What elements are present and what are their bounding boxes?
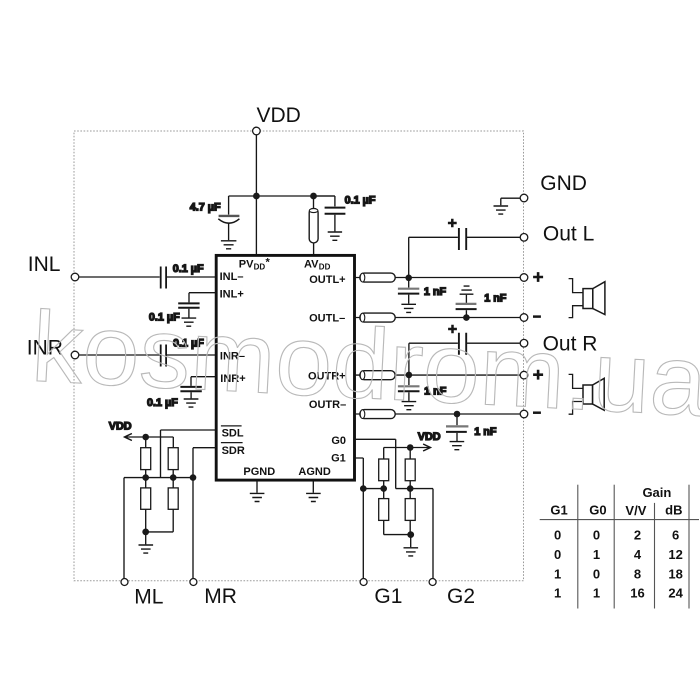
svg-text:12: 12: [668, 547, 682, 562]
svg-text:1: 1: [554, 566, 561, 581]
svg-text:Out L: Out L: [543, 223, 594, 246]
wire supply rail: [229, 195, 335, 197]
arrowhead VDD right: [423, 444, 430, 451]
capacitor C9 1nF on OUTL- with ground above: [465, 310, 467, 317]
svg-text:0: 0: [554, 547, 561, 562]
plus mark C10: [448, 325, 457, 334]
node ML: [121, 579, 128, 586]
node G1: [360, 579, 367, 586]
inverted ground above C9: [460, 286, 474, 294]
svg-text:0.1 µF: 0.1 µF: [345, 195, 376, 207]
ground at GND node: [494, 206, 509, 214]
svg-text:18: 18: [668, 566, 682, 581]
node INR: [71, 351, 79, 359]
wire Out R coupling branch: [409, 343, 520, 375]
terminal plus mark Out L line: [533, 272, 543, 282]
arrowhead VDD left: [125, 434, 132, 441]
capacitor C4 0.1uF plates: [178, 303, 199, 307]
ground under C4: [182, 318, 197, 326]
node MR: [190, 579, 197, 586]
capacitor C8 1nF on OUTL+: [408, 278, 410, 288]
ferrite bead L3 on OUTR+: [360, 371, 395, 380]
ferrite bead L2 on OUTL-: [360, 313, 395, 322]
svg-text:8: 8: [634, 566, 641, 581]
terminal plus mark Out R line: [533, 370, 543, 380]
wire G1: [355, 458, 364, 579]
svg-text:V/V: V/V: [625, 503, 646, 518]
svg-text:AGND: AGND: [298, 466, 330, 478]
svg-text:INL+: INL+: [220, 289, 244, 301]
junction dots output lines: [253, 193, 470, 418]
svg-text:4: 4: [634, 547, 642, 562]
capacitor C2 plates: [325, 208, 346, 214]
node Out R: [520, 339, 528, 347]
resistor R2b: [168, 488, 178, 509]
wire ML drop: [123, 478, 125, 579]
wire INR+ to bypass cap: [191, 377, 216, 386]
node speaker R minus: [520, 410, 528, 418]
ground PGND: [256, 481, 258, 493]
gain table rules: [540, 485, 699, 609]
wire INL+ to bypass cap: [189, 293, 216, 303]
ferrite bead L4 on OUTR-: [360, 410, 395, 419]
wire resistor leads right network: [384, 481, 411, 535]
node speaker R plus: [520, 371, 528, 379]
node speaker L minus: [520, 314, 528, 322]
junction dots left network: [142, 434, 196, 536]
svg-text:0: 0: [593, 566, 600, 581]
wire mid rail right network: [363, 488, 383, 490]
svg-text:4.7 µF: 4.7 µF: [190, 201, 221, 213]
node speaker L plus: [520, 274, 528, 282]
svg-text:*: *: [266, 257, 271, 269]
svg-text:DD: DD: [319, 263, 331, 272]
IC U1 body: [216, 255, 354, 480]
svg-text:1: 1: [554, 586, 561, 601]
capacitor C1 ground stem: [228, 223, 230, 240]
svg-text:Gain: Gain: [642, 485, 671, 500]
svg-text:G1: G1: [550, 502, 567, 517]
svg-text:INL: INL: [28, 253, 61, 276]
wire R3b top lead: [409, 448, 411, 460]
speaker SP2 right channel: [569, 374, 605, 414]
wire VDD arrow line left: [126, 437, 174, 448]
wire SDR: [193, 448, 216, 579]
resistor R1b: [168, 448, 178, 470]
svg-text:0: 0: [593, 527, 600, 542]
svg-text:1 nF: 1 nF: [484, 293, 507, 305]
wire R1a top lead: [145, 437, 147, 448]
ground under C12: [450, 442, 465, 450]
capacitor C4 ground stem: [188, 309, 190, 318]
ferrite bead on AVDD lead wire: [313, 196, 315, 255]
capacitor C3 0.1uF series plates: [161, 267, 166, 289]
node GND: [520, 194, 528, 202]
ground under C2: [328, 232, 342, 240]
resistor R4a: [379, 499, 389, 521]
capacitor C1 top plate: [219, 215, 240, 217]
svg-text:6: 6: [672, 527, 679, 542]
ferrite bead L1 on OUTL+: [360, 273, 395, 282]
ground under C8: [401, 304, 416, 312]
resistor R3b: [405, 459, 415, 481]
svg-text:2: 2: [634, 527, 641, 542]
ground stem left network: [145, 532, 147, 545]
svg-text:OUTL+: OUTL+: [309, 274, 345, 286]
ground AGND: [312, 481, 314, 493]
svg-text:G0: G0: [331, 435, 346, 447]
resistor R4b: [405, 499, 415, 521]
svg-text:SDR: SDR: [222, 445, 245, 457]
wire GND stub: [501, 198, 520, 205]
ground under left network: [139, 545, 154, 553]
resistor R3a: [379, 459, 389, 481]
wire OUTR+ line: [355, 374, 521, 376]
wire mid rail left network: [124, 477, 193, 479]
ground stem right network: [410, 535, 412, 548]
svg-text:1: 1: [593, 547, 600, 562]
svg-text:G0: G0: [589, 502, 606, 517]
svg-text:GND: GND: [540, 172, 587, 195]
wire OUTR- line: [355, 413, 521, 415]
junction dots right network: [360, 444, 414, 538]
capacitor C6 ground stem: [190, 392, 192, 398]
svg-text:ML: ML: [134, 585, 163, 608]
capacitor C12 1nF on OUTR-: [456, 414, 458, 425]
speaker SP1 left channel: [569, 279, 605, 318]
wire VDD arrow line right: [384, 448, 429, 460]
dashed application border box: [74, 131, 524, 581]
svg-text:1: 1: [593, 586, 600, 601]
svg-text:G2: G2: [447, 585, 475, 608]
svg-text:AV: AV: [304, 258, 319, 270]
capacitor C2 ground stem: [334, 215, 336, 232]
wire G0: [355, 439, 434, 578]
svg-text:VDD: VDD: [418, 431, 441, 443]
capacitor C7 electrolytic plates Out L: [459, 228, 466, 250]
wire VDD drop to supply rail: [255, 131, 257, 196]
node VDD: [253, 127, 261, 135]
svg-text:24: 24: [668, 586, 683, 601]
terminal minus mark Out R line: [533, 411, 541, 414]
watermark overlay: [29, 291, 700, 438]
svg-text:1 nF: 1 nF: [424, 286, 447, 298]
plus mark C7: [448, 219, 457, 228]
ground under right network: [404, 548, 419, 556]
wire PVDD lead: [255, 196, 257, 255]
node INL: [71, 273, 79, 281]
svg-text:G1: G1: [374, 585, 402, 608]
wire OUTL+ line: [355, 277, 521, 279]
capacitor C5 0.1uF series plates: [161, 345, 166, 367]
wire resistor leads left network: [146, 470, 174, 532]
capacitor C11 1nF on OUTR+: [408, 375, 410, 385]
capacitor C1 4.7uF lead: [228, 196, 230, 215]
svg-text:DD: DD: [254, 263, 266, 272]
capacitor C10 electrolytic plates Out R: [459, 333, 466, 355]
svg-text:INL–: INL–: [220, 271, 244, 283]
resistor R1a: [141, 448, 151, 470]
ferrite bead vertical body on AVDD: [309, 209, 318, 243]
svg-text:MR: MR: [204, 585, 237, 608]
wire OUTL- line: [355, 317, 521, 319]
terminal minus mark Out L line: [533, 315, 541, 318]
wire SDL: [161, 430, 217, 478]
svg-text:0.1 µF: 0.1 µF: [173, 263, 204, 275]
svg-text:VDD: VDD: [109, 421, 132, 433]
svg-text:PV: PV: [239, 258, 254, 270]
capacitor C6 0.1uF plates: [180, 387, 201, 391]
ground under C6: [184, 399, 199, 407]
wire Out L coupling branch: [409, 237, 521, 277]
wire INL input: [79, 276, 216, 278]
ground under C1: [221, 241, 237, 249]
svg-text:16: 16: [630, 586, 644, 601]
svg-text:PGND: PGND: [243, 466, 275, 478]
wire INR input: [79, 354, 216, 356]
node G2: [429, 579, 436, 586]
ground under C11: [402, 402, 417, 410]
svg-text:1 nF: 1 nF: [474, 426, 497, 438]
capacitor C2 0.1uF feed wire: [314, 196, 335, 206]
svg-text:SDL: SDL: [222, 427, 244, 439]
svg-text:dB: dB: [665, 502, 682, 517]
capacitor C1 curved plate: [218, 219, 239, 223]
node Out L: [520, 234, 528, 242]
svg-text:G1: G1: [331, 452, 346, 464]
svg-text:VDD: VDD: [257, 104, 301, 127]
resistor R2a: [141, 488, 151, 509]
svg-text:0: 0: [554, 527, 561, 542]
